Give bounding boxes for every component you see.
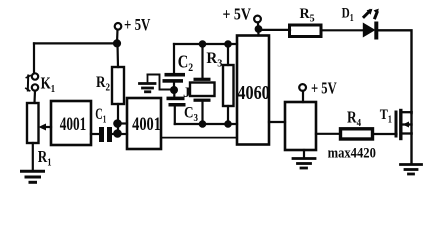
node crystal bottom <box>199 120 207 128</box>
node junction top-left <box>113 39 121 47</box>
resistor R4 <box>341 129 373 139</box>
svg-text:J: J <box>183 85 191 101</box>
wiper arrow R1 <box>39 124 52 131</box>
capacitor C2 <box>163 73 186 83</box>
ground under T1 <box>401 165 422 175</box>
svg-text:R2: R2 <box>96 74 110 94</box>
svg-text:R5: R5 <box>300 6 315 25</box>
wire dot2 to U2 <box>118 133 127 135</box>
op-amp gate 4001 U2 <box>127 98 161 149</box>
wire max4420 out to R4 <box>316 133 340 135</box>
wire R3 bottom <box>227 106 229 124</box>
wire K1 drop <box>33 43 35 73</box>
wire D1 to corner <box>378 30 411 113</box>
crystal J <box>190 44 215 124</box>
svg-text:4001: 4001 <box>60 113 87 135</box>
capacitor C1 <box>99 127 112 142</box>
svg-text:4001: 4001 <box>132 113 161 134</box>
wire top oscillator rail <box>174 43 237 45</box>
wire +5V stem top-left <box>116 30 119 43</box>
capacitor C3 <box>167 97 186 107</box>
wire max4420 to ground <box>303 150 305 158</box>
wire K1 to R1 <box>33 91 36 104</box>
svg-text:C3: C3 <box>184 105 198 125</box>
LED D1 <box>363 9 379 40</box>
svg-text:max4420: max4420 <box>328 145 376 161</box>
ground under max4420 <box>293 159 315 169</box>
svg-text:+ 5V: + 5V <box>223 5 252 24</box>
node C2/C3 midpoint <box>170 86 178 94</box>
wire +5V node to R5 <box>259 29 291 31</box>
node dot1 <box>113 119 122 128</box>
svg-text:D1: D1 <box>342 4 354 24</box>
wire T1 source to ground <box>410 134 412 164</box>
wire C3 stem <box>173 90 175 97</box>
svg-text:R1: R1 <box>38 147 52 168</box>
op-amp gate 4001 U1 <box>51 101 91 145</box>
+5V terminal above max4420 <box>299 84 306 91</box>
node R3 top <box>224 40 232 48</box>
wire bottom oscillator rail <box>175 123 237 125</box>
resistor R2 <box>112 67 124 104</box>
wire U2 output to 4060 <box>161 137 237 139</box>
wire +5V to max4420 <box>302 91 304 102</box>
node R3 bottom <box>224 120 232 128</box>
wire R2 top <box>116 43 119 67</box>
wire 4060 to max4420 <box>269 121 285 123</box>
wire U1 out to C1 <box>91 133 99 135</box>
wire C1 to node <box>112 133 118 135</box>
wire C2 drop <box>173 44 175 73</box>
switch K1 <box>26 73 38 91</box>
resistor R5 <box>290 25 322 37</box>
wire ground hook <box>148 75 171 90</box>
node dot2 <box>113 129 122 138</box>
wire R4 to gate <box>373 133 397 135</box>
svg-text:R4: R4 <box>347 110 361 130</box>
resistor R3 <box>223 65 234 106</box>
wire R1 to ground <box>32 143 34 170</box>
svg-text:R3: R3 <box>206 50 222 70</box>
ground mid (C2/C3 midpoint) <box>140 75 156 92</box>
svg-text:T1: T1 <box>380 106 393 125</box>
potentiometer R1 <box>27 103 39 143</box>
svg-text:+ 5V: + 5V <box>311 80 337 98</box>
+5V terminal top-left <box>115 23 122 30</box>
+5V terminal above 4060 <box>254 16 261 23</box>
wire C3 to bottom rail <box>174 107 176 125</box>
wire R3 top <box>227 44 229 65</box>
wire top-left rail <box>34 42 117 44</box>
IC 4060 <box>237 36 269 145</box>
svg-text:+ 5V: + 5V <box>124 16 150 34</box>
svg-text:C2: C2 <box>178 51 193 74</box>
wire dot1 to U2 <box>118 122 128 124</box>
svg-text:4060: 4060 <box>237 82 269 104</box>
IC max4420 <box>285 102 316 150</box>
transistor T1 MOSFET <box>396 111 412 139</box>
wire R5 to D1 <box>321 29 363 31</box>
node crystal top <box>199 40 207 48</box>
node +5V/4060 <box>255 25 263 33</box>
wire C2 to midpoint node <box>173 83 175 90</box>
wire R2 bottom <box>117 104 119 134</box>
svg-text:K1: K1 <box>41 75 56 95</box>
svg-text:C1: C1 <box>95 105 106 126</box>
wire +5V to 4060 <box>257 22 260 35</box>
ground under R1 <box>22 171 44 182</box>
